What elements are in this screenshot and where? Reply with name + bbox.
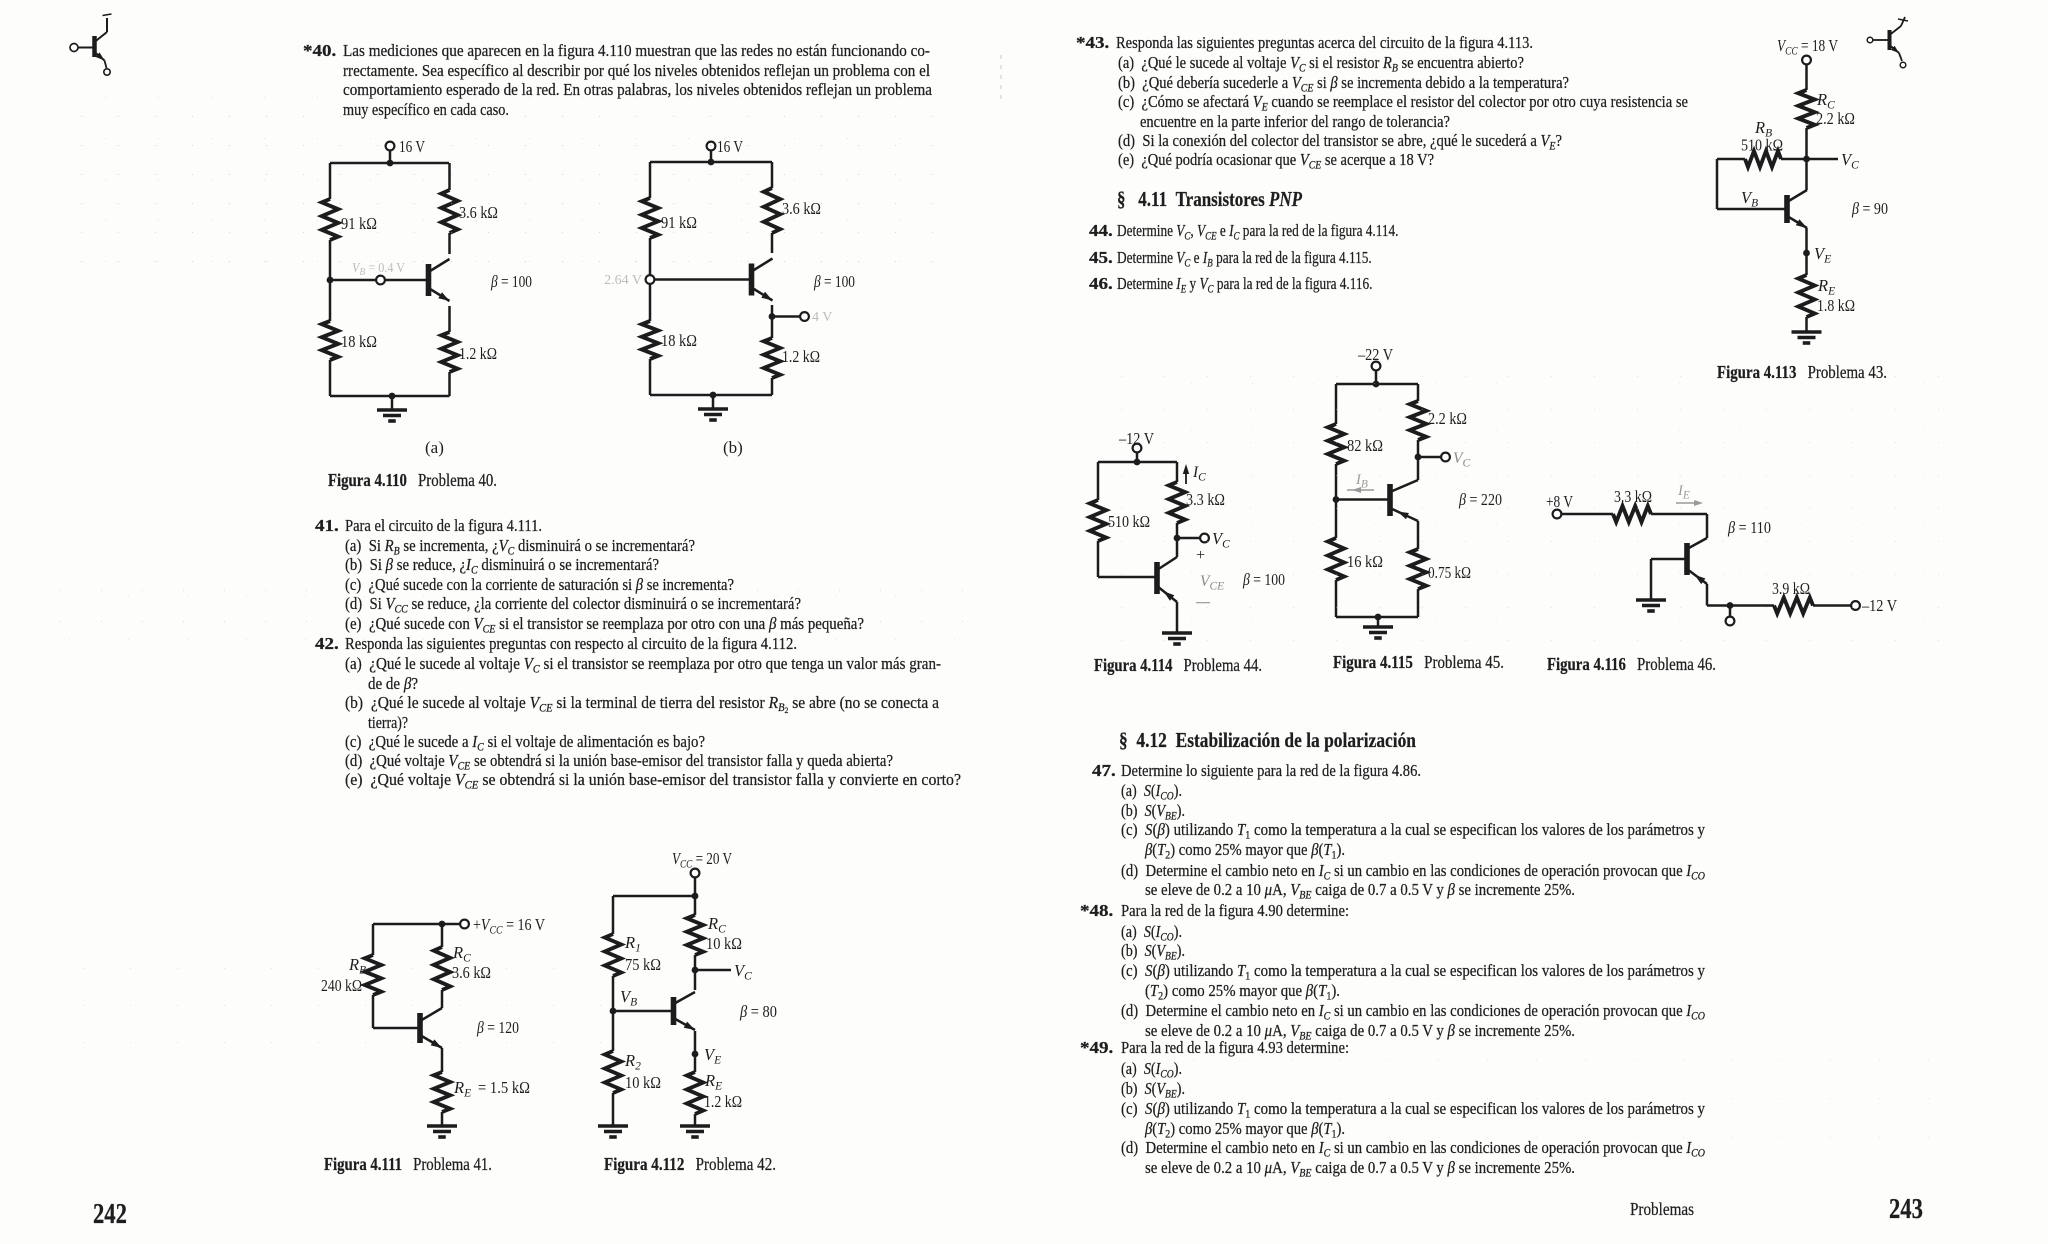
svg-text:18 kΩ: 18 kΩ [341, 332, 377, 351]
wire: right branch upper [1417, 384, 1420, 401]
wire: left branch to base node [329, 240, 332, 280]
current arrow IB (faded) [1347, 472, 1374, 493]
svg-text:β = 90: β = 90 [1851, 199, 1888, 218]
supply terminal [1802, 56, 1811, 65]
supply terminal +VCC = 16 V [460, 915, 545, 937]
wire: 18k bottom lead [649, 359, 652, 395]
transistor Q (fig 4.111 NPN) [420, 1008, 442, 1048]
svg-text:RE: RE [1817, 276, 1835, 298]
node: output junction [1727, 602, 1734, 609]
svg-text:1.2 kΩ: 1.2 kΩ [782, 347, 820, 366]
ground (fig 4.115) [1363, 617, 1393, 638]
resistor RC 2.2 kOhm (fig 4.113) [1798, 90, 1855, 128]
svg-text:2.64 V: 2.64 V [604, 273, 642, 288]
wire: emitter to VE node [694, 1031, 697, 1054]
measurement terminal on base wire [376, 276, 385, 285]
wire: emitter lead [771, 305, 774, 317]
svg-text:(b): (b) [723, 438, 743, 457]
transistor Q (fig 4.116 PNP common-base) [1687, 538, 1707, 584]
svg-text:(a): (a) [425, 438, 444, 457]
resistor 0.75 kOhm (fig 4.115) [1410, 549, 1471, 589]
supply terminal 16 V (fig 4.110b) [707, 137, 743, 156]
wire: +8V to 3.3k [1562, 513, 1614, 516]
wire: left branch upper [329, 163, 332, 199]
svg-text:4 V: 4 V [812, 310, 832, 325]
wire: feedback branch down [1716, 159, 1719, 209]
resistor RB 510 kOhm horizontal (fig 4.113) [1717, 118, 1807, 167]
svg-text:VCC = 18 V: VCC = 18 V [1777, 36, 1838, 58]
svg-text:2.2 kΩ: 2.2 kΩ [1816, 109, 1855, 128]
wire: 18k bottom lead [329, 360, 332, 396]
resistor 91 kOhm (fig 4.110b) [642, 198, 697, 238]
wire: base wire [1717, 208, 1787, 211]
wire: resistor to VC node [1176, 523, 1179, 538]
wire: supply lead [694, 877, 697, 896]
wire: collector lead [448, 233, 451, 254]
wire: RC top lead [771, 162, 774, 188]
faint gutter mark [1000, 55, 1002, 105]
wire: supply lead [389, 150, 392, 163]
wire: top rail [330, 160, 449, 167]
wire: R2 bottom lead [612, 1093, 615, 1126]
resistor RE = 1.5 kOhm (fig 4.111) [434, 1072, 530, 1112]
resistor 3.9 kOhm horizontal (fig 4.116) [1772, 579, 1813, 614]
wire: base wire [655, 278, 751, 281]
wire: bottom rail [1336, 614, 1418, 621]
wire: emitter lead [448, 306, 451, 332]
wire: 3.9k to -12V terminal [1813, 604, 1851, 607]
problem 43 text [1076, 33, 1109, 52]
svg-text:VC: VC [1841, 150, 1859, 172]
ground (fig 4.116) [1636, 600, 1666, 611]
svg-text:75 kΩ: 75 kΩ [625, 955, 661, 974]
svg-text:1.2 kΩ: 1.2 kΩ [459, 344, 497, 363]
wire: VE to RE [694, 1054, 697, 1072]
wire: left branch upper [649, 162, 652, 198]
ground (fig 4.110a) [377, 396, 407, 421]
problem 42 text [315, 634, 339, 653]
svg-text:R1: R1 [624, 933, 641, 955]
resistor 1.2 kOhm (fig 4.110a RE) [441, 332, 497, 372]
wire: RC top lead [448, 163, 451, 190]
decorative transistor sketch top-right [1867, 17, 1908, 68]
svg-text:VCC = 20 V: VCC = 20 V [672, 849, 732, 871]
wire: supply lead [1375, 370, 1378, 384]
wire: RE bottom lead [771, 378, 774, 395]
supply terminal [691, 869, 700, 878]
section heading 4.12 [1119, 731, 1416, 750]
wire: bottom rail [330, 393, 450, 400]
transistor Q (fig 4.110b NPN) [752, 259, 773, 301]
supply terminal [1553, 510, 1562, 519]
wire: 16k bottom lead [1335, 580, 1338, 617]
faint scan noise patches (decorative) [60, 95, 950, 265]
node: VC junction [1415, 454, 1422, 461]
resistor 3.3 kOhm horizontal (fig 4.116) [1613, 487, 1652, 522]
node: base junction [610, 1008, 617, 1015]
resistor 82 kOhm (fig 4.115) [1328, 424, 1383, 464]
wire: left branch upper [372, 924, 375, 955]
caption figura 4.112 [604, 1155, 776, 1174]
node: divider junction [327, 277, 334, 284]
section heading 4.11 [1117, 190, 1302, 209]
node: base junction [1333, 496, 1340, 503]
svg-text:VB: VB [620, 987, 637, 1009]
resistor RE 1.2 kOhm (fig 4.112) [687, 1071, 742, 1114]
wire: VC stub [1807, 158, 1839, 161]
wire: RE bottom lead [441, 1112, 444, 1126]
terminal -12 V [1851, 596, 1897, 615]
svg-text:RE: RE [704, 1071, 722, 1093]
wire: emitter down [1176, 602, 1179, 633]
wire: collector lead [441, 990, 444, 1008]
svg-text:10 kΩ: 10 kΩ [625, 1073, 661, 1092]
resistor 18 kOhm (fig 4.110a) [322, 321, 377, 360]
resistor RE 1.8 kOhm (fig 4.113) [1798, 275, 1855, 317]
wire: 16k upper lead [1335, 500, 1338, 539]
wire: VC stub [1177, 537, 1200, 540]
resistor 3.6 kOhm (fig 4.110a RC) [441, 190, 498, 233]
resistor 510 kOhm (fig 4.114) [1090, 500, 1150, 541]
terminal VC [1200, 529, 1230, 551]
wire: top rail [1336, 381, 1418, 388]
caption figura 4.110 [328, 471, 497, 490]
ground (fig 4.113) [1792, 332, 1822, 343]
svg-text:β = 100: β = 100 [813, 272, 855, 291]
wire: node to RE [771, 317, 774, 339]
wire: top rail [613, 893, 698, 900]
measurement terminal at base node [646, 275, 655, 284]
svg-text:= 1.5 kΩ: = 1.5 kΩ [478, 1078, 530, 1097]
transistor Q (fig 4.114 PNP) [1157, 557, 1177, 602]
transistor Q (fig 4.113 NPN) [1787, 190, 1807, 228]
page number 243 [1889, 1195, 1923, 1224]
wire: base wire [373, 1027, 420, 1030]
wire: RC to VC node [1805, 128, 1808, 159]
output terminal stub [1726, 606, 1735, 626]
resistor 3.3 kOhm (fig 4.114) [1169, 482, 1225, 523]
wire: emitter lead [441, 1048, 444, 1072]
ground (fig 4.111) [427, 1126, 457, 1137]
caption figura 4.115 [1333, 653, 1504, 672]
wire: VC node down to collector [1176, 538, 1179, 557]
resistor RC 10 kOhm (fig 4.112) [687, 914, 742, 955]
wire: left branch lower [329, 280, 332, 321]
svg-text:10 kΩ: 10 kΩ [706, 934, 742, 953]
ground left (fig 4.112) [598, 1126, 628, 1137]
wire: 3.3k to emitter corner [1651, 514, 1707, 538]
supply terminal [1372, 362, 1381, 371]
wire: R2 upper lead [612, 1011, 615, 1051]
svg-text:1.8 kΩ: 1.8 kΩ [1817, 296, 1855, 315]
resistor 18 kOhm (fig 4.110b) [642, 321, 697, 359]
wire: left branch upper [1335, 384, 1338, 424]
svg-text:VE: VE [1814, 244, 1831, 266]
svg-text:R2: R2 [624, 1051, 641, 1073]
wire: top rail [650, 159, 772, 166]
node: VC junction [692, 967, 699, 974]
wire: supply lead [1136, 452, 1139, 462]
node: VE [1803, 250, 1810, 257]
wire: collector down to output rail [1706, 584, 1709, 606]
svg-text:VC: VC [734, 961, 752, 983]
wire: 2.2k to VC node [1417, 440, 1420, 457]
svg-text:β = 80: β = 80 [739, 1002, 777, 1021]
wire: supply lead [710, 150, 713, 162]
resistor R1 75 kOhm (fig 4.112) [605, 933, 661, 976]
transistor Q (fig 4.115 PNP) [1390, 480, 1418, 521]
node: VC junction [1803, 156, 1810, 163]
problem 48 text [1080, 901, 1113, 920]
wire: left branch middle [649, 238, 652, 321]
wire: RE bottom lead [448, 372, 451, 396]
wire: left branch upper [612, 896, 615, 934]
wire: collector lead [1805, 159, 1808, 190]
node: VE junction [692, 1051, 699, 1058]
wire: output stub [772, 315, 800, 318]
caption figura 4.111 [324, 1155, 492, 1174]
wire: 510k to base corner [1097, 541, 1100, 577]
wire: collector lead [771, 233, 774, 253]
wire: top rail [1098, 459, 1177, 466]
page number 242 [93, 1200, 127, 1229]
svg-text:510 kΩ: 510 kΩ [1741, 136, 1783, 155]
transistor Q (fig 4.112 NPN) [674, 992, 696, 1030]
problems 44-46 [1089, 221, 1113, 240]
wire: VC stub [1418, 456, 1441, 459]
supply terminal 16 V (fig 4.110a) [386, 137, 425, 156]
wire: VE to RE [1805, 253, 1808, 275]
wire: rail to 3.9k [1730, 604, 1774, 607]
node: emitter output junction [769, 313, 776, 320]
resistor 91 kOhm (fig 4.110a) [322, 199, 377, 240]
wire: emitter to VE node [1805, 228, 1808, 253]
output terminal 4 V (faded) [800, 310, 832, 325]
svg-text:β = 100: β = 100 [490, 272, 532, 291]
current arrow IC [1183, 464, 1206, 484]
svg-text:VE: VE [704, 1045, 721, 1067]
wire: bottom rail [650, 392, 772, 399]
wire: 0.75k bottom lead [1417, 589, 1420, 617]
current arrow IE (faded) [1676, 483, 1703, 506]
running foot: Problemas [1630, 1200, 1694, 1219]
wire: RC leads [694, 896, 697, 970]
resistor 2.2 kOhm (fig 4.115) [1410, 401, 1467, 440]
resistor R2 10 kOhm (fig 4.112) [605, 1051, 661, 1093]
wire: base wire right segment [385, 279, 428, 282]
svg-text:RC: RC [707, 914, 726, 936]
svg-text:RE: RE [453, 1078, 471, 1100]
resistor 16 kOhm (fig 4.115) [1328, 538, 1383, 580]
wire: RE bottom lead [694, 1114, 697, 1126]
wire: RB to base corner [372, 995, 375, 1028]
wire: RC top lead [441, 924, 444, 947]
caption figura 4.114 [1094, 656, 1262, 675]
svg-text:1.2 kΩ: 1.2 kΩ [704, 1092, 742, 1111]
wire: base wire [613, 1010, 673, 1013]
svg-text:VB: VB [1741, 188, 1758, 210]
problem 47 text [1092, 761, 1116, 780]
wire: RE bottom lead [1805, 317, 1808, 332]
wire: base wire [1098, 576, 1157, 579]
wire: base wire left segment [330, 279, 376, 282]
svg-text:18 kΩ: 18 kΩ [661, 331, 697, 350]
wire: emitter down [1417, 521, 1420, 549]
supply terminal [1133, 444, 1142, 453]
ground right (fig 4.112) [680, 1126, 710, 1137]
wire: right branch upper [1176, 462, 1179, 482]
wire: VC down to collector [1417, 457, 1420, 480]
caption figura 4.113 [1717, 363, 1887, 382]
resistor 3.6 kOhm (fig 4.110b RC) [764, 188, 821, 233]
wire: top rail (fig 4.111) [373, 921, 460, 928]
node: VC junction [1174, 535, 1181, 542]
ground (fig 4.114) [1162, 633, 1192, 644]
resistor RB 240 kOhm (fig 4.111) [321, 955, 381, 995]
resistor 1.2 kOhm (fig 4.110b RE) [764, 338, 820, 378]
wire: base left and down [1651, 559, 1687, 600]
problem 40 text [303, 41, 336, 60]
wire: base wire [1336, 498, 1390, 501]
wire: left branch upper [1097, 462, 1100, 500]
wire: output rail left segment [1707, 604, 1730, 607]
wire: supply lead [1805, 64, 1808, 90]
decorative transistor sketch top-left [70, 14, 112, 75]
wire: R1 to base node [612, 976, 615, 1011]
wire: collector to VC node [694, 970, 697, 990]
wire: 82k to base node [1335, 464, 1338, 500]
problem 49 text [1080, 1038, 1113, 1057]
svg-text:+VCC = 16 V: +VCC = 16 V [473, 915, 545, 937]
resistor RC 3.6 kOhm (fig 4.111) [434, 943, 491, 990]
terminal VC (faded label) [1441, 450, 1470, 470]
wire: VC stub [695, 969, 731, 972]
ground (fig 4.110b) [698, 395, 728, 420]
caption figura 4.116 [1547, 655, 1716, 674]
transistor Q (fig 4.110a NPN) [429, 259, 450, 301]
problem 41 text [315, 516, 339, 535]
